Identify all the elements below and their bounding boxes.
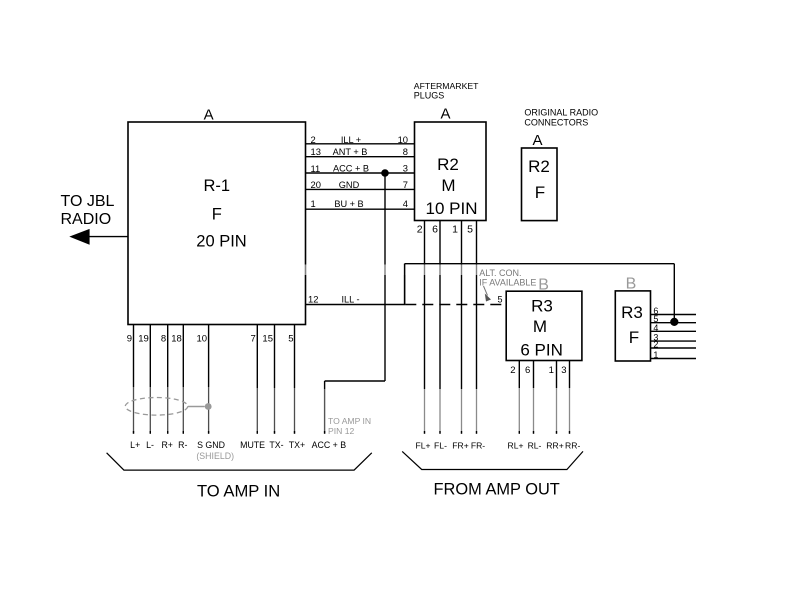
svg-text:TX-: TX- [269, 440, 283, 450]
svg-text:11: 11 [311, 163, 321, 174]
svg-text:TO AMP IN: TO AMP IN [197, 482, 280, 501]
svg-text:A: A [204, 106, 214, 123]
svg-text:ORIGINAL RADIO: ORIGINAL RADIO [524, 108, 598, 118]
svg-text:5: 5 [288, 333, 293, 344]
svg-text:5: 5 [498, 295, 503, 305]
svg-text:10: 10 [398, 134, 408, 145]
svg-text:L-: L- [146, 440, 154, 450]
svg-text:R-1: R-1 [204, 177, 231, 195]
svg-text:F: F [535, 183, 545, 202]
svg-text:B: B [626, 276, 637, 293]
svg-text:ANT + B: ANT + B [333, 147, 368, 157]
svg-text:RADIO: RADIO [61, 211, 112, 228]
svg-text:F: F [629, 328, 639, 347]
svg-text:8: 8 [161, 333, 166, 344]
svg-text:8: 8 [403, 146, 408, 157]
svg-text:ACC + B: ACC + B [312, 440, 347, 450]
svg-text:2: 2 [311, 134, 316, 145]
svg-text:10 PIN: 10 PIN [426, 199, 478, 218]
svg-text:4: 4 [653, 323, 658, 333]
svg-text:TO JBL: TO JBL [61, 193, 115, 210]
svg-text:13: 13 [311, 146, 321, 157]
svg-text:10: 10 [197, 333, 208, 344]
svg-text:FL+: FL+ [415, 441, 430, 451]
svg-text:CONNECTORS: CONNECTORS [524, 118, 588, 128]
svg-text:FROM AMP OUT: FROM AMP OUT [434, 481, 560, 499]
svg-text:S GND: S GND [197, 440, 225, 450]
svg-text:PIN 12: PIN 12 [328, 426, 354, 436]
svg-text:3: 3 [403, 163, 408, 174]
svg-text:2: 2 [510, 365, 515, 376]
svg-text:FR+: FR+ [452, 441, 468, 451]
svg-text:2: 2 [653, 340, 658, 350]
svg-text:20: 20 [311, 179, 321, 190]
svg-text:RR+: RR+ [546, 441, 563, 451]
svg-text:ACC + B: ACC + B [333, 164, 369, 174]
svg-text:B: B [538, 277, 549, 294]
svg-text:F: F [212, 205, 222, 223]
svg-text:TX+: TX+ [289, 440, 305, 450]
svg-text:L+: L+ [130, 440, 140, 450]
svg-text:7: 7 [251, 333, 256, 344]
svg-text:4: 4 [403, 198, 408, 209]
svg-text:TO AMP IN: TO AMP IN [328, 416, 371, 426]
svg-text:(SHIELD): (SHIELD) [196, 451, 234, 461]
svg-text:R2: R2 [528, 157, 550, 176]
svg-text:BU + B: BU + B [334, 199, 363, 209]
svg-text:6 PIN: 6 PIN [520, 341, 563, 360]
svg-text:6: 6 [525, 365, 530, 376]
svg-text:R2: R2 [437, 155, 459, 174]
svg-text:R-: R- [178, 440, 187, 450]
svg-text:M: M [533, 317, 547, 336]
svg-text:RL-: RL- [528, 441, 542, 451]
svg-text:1: 1 [311, 198, 316, 209]
svg-text:15: 15 [262, 333, 273, 344]
svg-text:R3: R3 [531, 296, 553, 315]
svg-text:7: 7 [403, 179, 408, 190]
svg-text:MUTE: MUTE [240, 440, 265, 450]
svg-text:IF AVAILABLE: IF AVAILABLE [479, 278, 536, 288]
svg-text:ILL -: ILL - [341, 295, 359, 305]
svg-text:1: 1 [653, 350, 658, 360]
svg-text:PLUGS: PLUGS [414, 91, 445, 101]
svg-text:RL+: RL+ [507, 441, 523, 451]
svg-text:FL-: FL- [434, 441, 447, 451]
svg-text:RR-: RR- [565, 441, 580, 451]
svg-text:5: 5 [467, 223, 473, 235]
svg-text:3: 3 [561, 365, 566, 376]
svg-text:20 PIN: 20 PIN [196, 232, 246, 250]
svg-text:6: 6 [432, 223, 438, 235]
svg-text:ALT. CON.: ALT. CON. [479, 268, 521, 278]
svg-text:FR-: FR- [471, 441, 485, 451]
svg-text:9: 9 [127, 333, 132, 344]
svg-text:A: A [532, 132, 542, 149]
svg-text:AFTERMARKET: AFTERMARKET [414, 81, 479, 91]
svg-text:1: 1 [549, 365, 554, 376]
svg-text:12: 12 [308, 294, 318, 305]
svg-text:R+: R+ [161, 440, 173, 450]
svg-text:A: A [440, 106, 450, 123]
svg-text:2: 2 [417, 223, 423, 235]
svg-text:M: M [441, 176, 455, 195]
svg-text:R3: R3 [621, 303, 643, 322]
svg-text:GND: GND [339, 180, 360, 190]
svg-text:18: 18 [171, 333, 182, 344]
svg-text:19: 19 [138, 333, 149, 344]
svg-text:ILL +: ILL + [341, 135, 361, 145]
svg-text:1: 1 [452, 223, 458, 235]
